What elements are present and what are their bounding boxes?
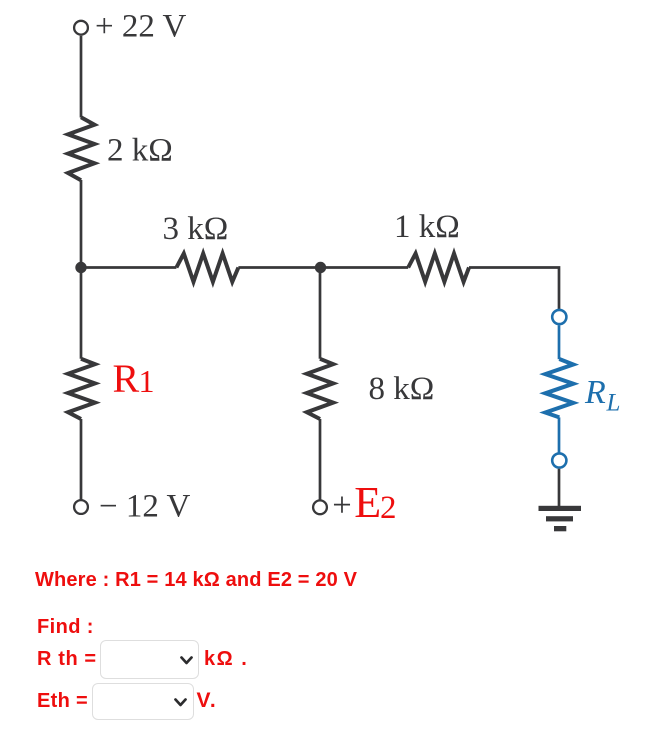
resistor R1 xyxy=(68,359,95,419)
wire 2k to node A xyxy=(80,180,83,268)
svg-text:1 kΩ: 1 kΩ xyxy=(394,209,460,245)
svg-text:3 kΩ: 3 kΩ xyxy=(163,211,229,247)
node A xyxy=(75,262,86,273)
text kOhm xyxy=(204,649,248,669)
wire top to 2k xyxy=(80,36,83,118)
wire node A down to R1 xyxy=(80,268,83,359)
terminal -12V xyxy=(74,500,88,514)
svg-text:8 kΩ: 8 kΩ xyxy=(369,371,435,407)
text Find xyxy=(37,617,94,637)
node B xyxy=(315,262,326,273)
svg-text:E: E xyxy=(354,478,381,527)
select Eth xyxy=(92,683,194,721)
svg-text:2 kΩ: 2 kΩ xyxy=(107,133,173,169)
resistor 1k xyxy=(408,254,469,282)
svg-text:− 12 V: − 12 V xyxy=(99,489,191,525)
resistor 3k xyxy=(176,254,238,282)
wire node A to 3k xyxy=(81,266,176,269)
terminal +22V xyxy=(74,21,88,35)
wire 8k to E2 xyxy=(319,419,322,500)
svg-text:1: 1 xyxy=(139,363,155,399)
text Eth xyxy=(37,691,88,711)
ground xyxy=(539,506,582,532)
wire RL bottom xyxy=(558,417,561,452)
svg-text:L: L xyxy=(606,390,621,417)
wire node B to 1k xyxy=(321,266,409,269)
wire to ground xyxy=(558,469,561,506)
svg-text:R: R xyxy=(113,356,140,401)
terminal RL bottom xyxy=(552,453,566,467)
wire 3k to node B xyxy=(238,266,320,269)
terminal E2 xyxy=(313,500,327,514)
select Rth xyxy=(100,640,199,679)
svg-text:+: + xyxy=(332,487,351,525)
terminal RL top xyxy=(552,310,566,324)
wire node B down to 8k xyxy=(319,268,322,359)
resistor 8k xyxy=(307,359,333,419)
svg-text:+ 22 V: + 22 V xyxy=(95,8,187,44)
svg-text:2: 2 xyxy=(380,490,397,526)
wire R1 to -12V xyxy=(80,419,83,500)
wire RL top xyxy=(558,325,561,359)
svg-text:R: R xyxy=(584,374,606,411)
text Where xyxy=(35,570,357,590)
wire 1k to right corner down xyxy=(469,266,559,309)
text Rth xyxy=(37,649,97,669)
resistor 2k xyxy=(68,117,95,180)
text V xyxy=(197,691,218,711)
resistor RL xyxy=(545,359,573,417)
